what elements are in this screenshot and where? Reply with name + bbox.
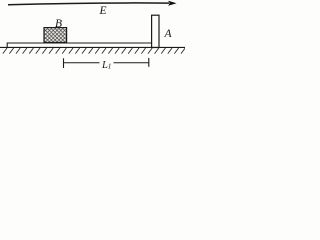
dimension line L1 left segment — [64, 62, 100, 64]
slab top surface — [7, 43, 151, 47]
arrowhead of E — [168, 1, 176, 6]
dimension line L1 right segment — [114, 62, 149, 64]
wire: field arrow shaft E — [8, 3, 169, 5]
svg-text:B: B — [55, 18, 62, 30]
dimension left tick — [63, 58, 65, 68]
svg-text:A: A — [164, 28, 173, 40]
svg-text:L1: L1 — [101, 60, 111, 71]
ground hatching — [3, 48, 185, 54]
plate A — [152, 15, 159, 47]
dimension right tick — [148, 58, 150, 67]
block B (hatched) — [44, 28, 67, 43]
ground line — [0, 46, 185, 48]
svg-text:E: E — [99, 5, 107, 17]
